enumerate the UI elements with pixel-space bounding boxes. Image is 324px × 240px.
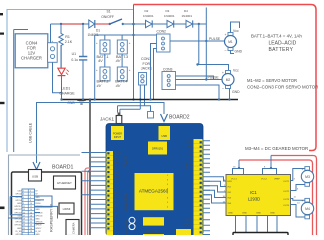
svg-text:GND: GND bbox=[35, 219, 40, 221]
wire series link BATT.1-BATT.2 bbox=[104, 54, 106, 67]
svg-text:USB: USB bbox=[162, 134, 168, 138]
diode D1 1N4001 bbox=[88, 20, 101, 37]
svg-text:18: 18 bbox=[30, 215, 32, 217]
right header strip bbox=[194, 139, 203, 235]
svg-text:8: 8 bbox=[30, 200, 31, 202]
svg-text:5V: 5V bbox=[114, 168, 117, 170]
svg-text:+: + bbox=[129, 41, 131, 45]
svg-text:HDMI: HDMI bbox=[63, 207, 71, 211]
wire M1 GND stub bbox=[231, 51, 235, 54]
svg-text:GND: GND bbox=[235, 50, 243, 54]
svg-text:GND: GND bbox=[35, 209, 40, 211]
svg-text:TX0 14: TX0 14 bbox=[185, 220, 193, 222]
junction bbox=[238, 167, 240, 169]
svg-text:GND: GND bbox=[232, 90, 240, 94]
svg-text:GND: GND bbox=[187, 146, 192, 148]
ground symbol bbox=[67, 100, 85, 104]
svg-text:BATT.4: BATT.4 bbox=[115, 79, 127, 83]
svg-text:17: 17 bbox=[23, 215, 25, 217]
svg-text:Vcc: Vcc bbox=[233, 29, 239, 33]
wire black stub from bus bbox=[89, 100, 91, 236]
svg-text:IOREF: IOREF bbox=[114, 154, 122, 156]
right side wire stubs bbox=[203, 141, 211, 235]
USB port box bbox=[29, 170, 42, 182]
svg-text:3.3V: 3.3V bbox=[17, 191, 22, 193]
svg-text:2: 2 bbox=[30, 191, 31, 193]
IC1 top pin bracket VCC2/VREF bbox=[263, 169, 277, 175]
svg-text:–: – bbox=[225, 48, 227, 52]
svg-text:VCC1: VCC1 bbox=[231, 179, 238, 181]
svg-text:GPIO8: GPIO8 bbox=[35, 225, 42, 227]
svg-text:–: – bbox=[222, 86, 224, 90]
svg-text:ON/OFF: ON/OFF bbox=[101, 15, 114, 19]
wire 12V rail blue segment bbox=[51, 23, 62, 25]
wire stubs to BATT.1/BATT.3 bbox=[105, 35, 122, 40]
black edge tick top-left bbox=[0, 13, 3, 15]
svg-text:+: + bbox=[225, 33, 227, 37]
svg-text:+: + bbox=[129, 68, 131, 72]
wire CON3 pulse line to M2 bbox=[176, 79, 224, 81]
svg-text:28: 28 bbox=[30, 231, 32, 233]
svg-text:GPIO2: GPIO2 bbox=[15, 194, 22, 196]
svg-text:U1: U1 bbox=[72, 52, 76, 56]
svg-text:PWM: PWM bbox=[185, 162, 189, 170]
svg-text:LEAD–ACID: LEAD–ACID bbox=[269, 41, 297, 47]
wire series link BATT.3-BATT.4 bbox=[121, 54, 123, 67]
svg-text:19: 19 bbox=[23, 219, 25, 221]
wire CON2 pins to ground bus bbox=[151, 44, 157, 100]
svg-text:0.1u: 0.1u bbox=[71, 58, 78, 62]
wire CON2 Vcc route to M2 bbox=[199, 24, 229, 71]
svg-text:M3: M3 bbox=[305, 175, 310, 179]
svg-text:ETHERNET: ETHERNET bbox=[57, 181, 72, 185]
connector BATT.2 bbox=[96, 67, 110, 88]
svg-text:GND: GND bbox=[35, 234, 40, 235]
svg-text:VCC2: VCC2 bbox=[261, 179, 268, 181]
svg-text:GND: GND bbox=[114, 177, 119, 179]
svg-text:M4: M4 bbox=[305, 207, 310, 211]
svg-text:FOR: FOR bbox=[143, 62, 151, 66]
svg-text:ICSP: ICSP bbox=[147, 213, 156, 217]
svg-text:27: 27 bbox=[23, 231, 25, 233]
junction bbox=[132, 34, 134, 36]
diode D3 1N4001 bbox=[164, 9, 175, 27]
svg-text:RASPBERRY PI: RASPBERRY PI bbox=[50, 204, 54, 232]
svg-text:ARDUINO: ARDUINO bbox=[125, 220, 129, 235]
connector plug for JACK1 bbox=[148, 112, 154, 119]
ATMEGA2560 chip bbox=[135, 173, 174, 210]
wire CON4 bottom loop to LED cathode bbox=[53, 62, 62, 92]
svg-text:RESET: RESET bbox=[146, 229, 160, 234]
svg-text:OUT3: OUT3 bbox=[283, 199, 290, 201]
svg-text:USB: USB bbox=[32, 175, 38, 179]
svg-text:23: 23 bbox=[23, 225, 25, 227]
svg-text:20: 20 bbox=[30, 219, 32, 221]
junction node at battery feed bbox=[132, 23, 135, 26]
dc motor M4 bbox=[301, 198, 313, 218]
connector CON4 2-pin header bbox=[48, 39, 58, 62]
svg-text:BATTERY: BATTERY bbox=[269, 47, 294, 53]
svg-text:14: 14 bbox=[30, 209, 32, 211]
right pin labels bbox=[184, 141, 193, 227]
wire servo power vertical bbox=[205, 8, 207, 80]
svg-text:GND: GND bbox=[35, 197, 40, 199]
svg-text:CON2: CON2 bbox=[157, 30, 167, 34]
svg-text:ID_SD: ID_SD bbox=[16, 231, 22, 233]
wires IC1 outputs to motors bbox=[291, 169, 305, 181]
svg-text:Vcc: Vcc bbox=[233, 69, 239, 73]
connector CON1 (for JACK1) bbox=[139, 57, 152, 85]
junction dots on bus bbox=[60, 98, 62, 100]
svg-text:BOARD1: BOARD1 bbox=[52, 165, 73, 171]
wire riser VCC1 to W1 bbox=[238, 160, 240, 169]
GPIO pin labels right bbox=[35, 191, 43, 236]
svg-text:D2: D2 bbox=[145, 9, 149, 13]
svg-text:GPIO22: GPIO22 bbox=[14, 212, 22, 214]
junction bbox=[198, 23, 200, 25]
wire D4 to servo rail bbox=[193, 23, 207, 25]
POWER INPUT block bbox=[111, 126, 124, 140]
junction bbox=[270, 167, 272, 169]
svg-text:+: + bbox=[302, 167, 304, 171]
wire D3-D4 bbox=[174, 23, 186, 25]
dc motor M3 bbox=[301, 167, 313, 187]
svg-text:GND: GND bbox=[114, 172, 119, 174]
wire 12V rail red segment bbox=[61, 23, 83, 25]
connector CON3 bbox=[162, 67, 176, 89]
svg-text:25: 25 bbox=[23, 228, 25, 230]
svg-text:INPUT: INPUT bbox=[114, 136, 122, 139]
svg-text:GND: GND bbox=[17, 203, 22, 205]
pin number labels IC1 left bbox=[223, 179, 226, 203]
ETHERNET port box bbox=[54, 176, 76, 189]
svg-text:GPIO24: GPIO24 bbox=[35, 215, 43, 217]
svg-text:RST: RST bbox=[114, 158, 119, 160]
svg-text:OUT1: OUT1 bbox=[283, 181, 290, 183]
svg-text:R1: R1 bbox=[65, 35, 70, 39]
svg-text:CHARGER: CHARGER bbox=[21, 56, 42, 61]
svg-text:JACK1: JACK1 bbox=[100, 116, 115, 121]
barrel jack symbol bbox=[116, 113, 122, 124]
svg-text:3.3V: 3.3V bbox=[17, 215, 22, 217]
svg-text:CON1: CON1 bbox=[141, 57, 151, 61]
svg-text:2.1K: 2.1K bbox=[65, 40, 73, 44]
left pin labels bbox=[114, 154, 122, 223]
svg-text:4V: 4V bbox=[98, 59, 103, 63]
svg-text:M1: M1 bbox=[228, 40, 233, 44]
red power wire W1 (VCC1 rail, wraps right and below crop) bbox=[239, 160, 313, 235]
svg-text:OUT2: OUT2 bbox=[283, 191, 290, 193]
svg-text:GPIO9: GPIO9 bbox=[15, 222, 22, 224]
svg-text:M3–M4 = DC GEARED MOTOR: M3–M4 = DC GEARED MOTOR bbox=[245, 146, 308, 151]
svg-text:1: 1 bbox=[23, 191, 24, 193]
USB cable wire bbox=[37, 103, 165, 164]
svg-text:4V: 4V bbox=[97, 84, 102, 88]
IC IC1 L293D bbox=[226, 175, 291, 216]
ground bus (black) bbox=[61, 99, 239, 101]
wire CON3 pin to ground bus bbox=[176, 76, 220, 100]
wires BOARD2 to IC1 inputs bbox=[203, 177, 227, 203]
black edge tick lower bbox=[0, 207, 5, 210]
svg-text:4: 4 bbox=[30, 194, 31, 196]
svg-text:CAMERA: CAMERA bbox=[72, 222, 76, 234]
svg-text:24: 24 bbox=[30, 225, 32, 227]
diode D2 1N4001 bbox=[143, 9, 154, 27]
outer section border (power supply section, blue) bbox=[7, 10, 134, 153]
svg-text:GPIO11: GPIO11 bbox=[14, 225, 22, 227]
svg-text:26: 26 bbox=[30, 228, 32, 230]
black edge tick middle bbox=[0, 102, 5, 104]
svg-text:GND: GND bbox=[256, 213, 261, 215]
connector CON2 bbox=[157, 30, 171, 53]
junction bbox=[82, 23, 84, 25]
svg-text:PULSE: PULSE bbox=[209, 37, 221, 41]
svg-text:GND: GND bbox=[17, 228, 22, 230]
battery left rail wire bbox=[94, 35, 96, 100]
svg-text:GPIO5: GPIO5 bbox=[15, 234, 22, 235]
USB block bbox=[159, 126, 171, 140]
svg-text:7: 7 bbox=[23, 200, 24, 202]
wire CON4 to 12V rail bbox=[50, 24, 52, 43]
wire D2-D3 bbox=[152, 23, 167, 25]
wire S1 to D2 (red) bbox=[124, 23, 145, 25]
junction bbox=[205, 78, 207, 80]
red power wire W1 left end (to BOARD2 pins, wraps below crop) bbox=[85, 168, 90, 235]
battery + rail wire bbox=[95, 34, 157, 36]
svg-text:DFR0191: DFR0191 bbox=[152, 147, 164, 151]
arduino infinity logo bbox=[129, 217, 135, 229]
left side wire stubs from BOARD1 to BOARD2 bbox=[82, 153, 107, 228]
resistor R1 bbox=[59, 24, 73, 68]
svg-text:PULSE: PULSE bbox=[208, 76, 220, 80]
svg-text:6: 6 bbox=[30, 197, 31, 199]
svg-text:ID_SC: ID_SC bbox=[35, 231, 41, 233]
svg-text:+: + bbox=[96, 41, 98, 45]
svg-text:USB CABLE: USB CABLE bbox=[29, 122, 33, 143]
svg-text:RX0 15: RX0 15 bbox=[184, 224, 192, 226]
svg-text:5: 5 bbox=[23, 197, 24, 199]
svg-text:GPIO4: GPIO4 bbox=[15, 200, 22, 202]
svg-text:BOARD2: BOARD2 bbox=[169, 114, 190, 120]
svg-text:1N4001: 1N4001 bbox=[143, 14, 154, 18]
svg-text:22: 22 bbox=[30, 222, 32, 224]
wire riser VCC2 to W2 bbox=[270, 156, 272, 169]
GPIO pin labels left bbox=[14, 191, 22, 236]
BOARD1 Raspberry Pi outline bbox=[12, 172, 82, 238]
wire M1 Vcc stub bbox=[231, 22, 240, 33]
svg-text:1N4001: 1N4001 bbox=[182, 14, 193, 18]
svg-text:BATT.2: BATT.2 bbox=[97, 79, 109, 83]
svg-text:CHARGE: CHARGE bbox=[59, 91, 75, 95]
wire CON1 down to plug bbox=[118, 85, 151, 113]
GPIO header table bbox=[22, 189, 35, 235]
svg-text:GPIO3: GPIO3 bbox=[15, 197, 22, 199]
svg-text:CON2–CON3 FOR SERVO MOTOR: CON2–CON3 FOR SERVO MOTOR bbox=[247, 85, 318, 90]
svg-text:9: 9 bbox=[23, 203, 24, 205]
wire battery feed vertical (box A left edge lead) bbox=[133, 5, 135, 100]
junction on left stub bbox=[88, 170, 90, 172]
svg-text:VREF: VREF bbox=[274, 179, 280, 181]
svg-text:D3: D3 bbox=[166, 9, 170, 13]
junction bbox=[60, 92, 62, 94]
red power wire W2 (VCC2 rail) bbox=[271, 156, 317, 236]
svg-text:3.3V: 3.3V bbox=[114, 163, 119, 165]
svg-text:GPIO17: GPIO17 bbox=[14, 206, 22, 208]
TX/RX label block bbox=[176, 229, 191, 235]
wire D1 to S1 (red) bbox=[96, 23, 110, 25]
svg-text:RXD0: RXD0 bbox=[35, 203, 41, 205]
svg-text:ATMEGA2560: ATMEGA2560 bbox=[139, 189, 169, 194]
svg-text:AREF: AREF bbox=[186, 141, 193, 144]
svg-text:BATT.1–BATT.4 = 4V, 1Ah: BATT.1–BATT.4 = 4V, 1Ah bbox=[251, 34, 302, 39]
svg-text:4V: 4V bbox=[116, 84, 121, 88]
junction bbox=[60, 23, 62, 25]
ATMEGA chip pin numbers right column bbox=[167, 175, 169, 209]
connector BATT.1 bbox=[96, 40, 110, 63]
svg-text:GPIO27: GPIO27 bbox=[14, 209, 22, 211]
svg-text:M2: M2 bbox=[226, 78, 231, 82]
HDMI port box bbox=[59, 203, 74, 214]
diode D4 1N4001 bbox=[182, 9, 193, 27]
red power wire W2 left end bbox=[88, 171, 91, 235]
svg-text:IC1: IC1 bbox=[250, 190, 257, 195]
svg-text:GND: GND bbox=[228, 213, 233, 215]
pin numbers IC1 right bbox=[294, 179, 301, 205]
junction bbox=[205, 40, 207, 42]
svg-text:4V: 4V bbox=[116, 59, 121, 63]
GPIO wires bbox=[8, 196, 58, 224]
svg-text:GND: GND bbox=[242, 213, 247, 215]
svg-text:16: 16 bbox=[30, 212, 32, 214]
svg-text:LED1: LED1 bbox=[61, 86, 70, 90]
left header strip bbox=[107, 151, 114, 235]
wire CON2 pulse line to M1 bbox=[170, 40, 225, 42]
servo motor M2 bbox=[222, 71, 234, 91]
svg-text:ANALOG IN: ANALOG IN bbox=[124, 193, 128, 211]
black edge tick upper bbox=[0, 33, 4, 35]
svg-text:+: + bbox=[96, 68, 98, 72]
svg-text:11: 11 bbox=[23, 206, 25, 208]
connector BATT.3 bbox=[116, 40, 131, 63]
svg-text:GND: GND bbox=[270, 213, 275, 215]
capacitor U1 0.1u bbox=[71, 24, 87, 100]
GPIO pin numbers bbox=[23, 191, 32, 233]
connector BATT.4 bbox=[115, 67, 130, 88]
servo motor M1 bbox=[225, 33, 237, 53]
BOARD1 outer section box bbox=[9, 155, 81, 235]
battery box bottom (cut off) bbox=[233, 233, 288, 239]
BOARD2 Arduino Mega board bbox=[106, 124, 203, 236]
red section box A (battery/servo section) bbox=[134, 5, 317, 151]
chip block 16U2 bbox=[148, 142, 167, 155]
svg-text:13: 13 bbox=[23, 209, 25, 211]
wire 12V line left vertical bbox=[14, 30, 28, 153]
svg-text:S1: S1 bbox=[107, 10, 111, 14]
svg-text:+: + bbox=[222, 71, 224, 75]
svg-text:1N4001: 1N4001 bbox=[164, 14, 175, 18]
arrowhead USB cable to BOARD2 USB bbox=[161, 114, 168, 122]
wires IC1 bottom bbox=[236, 216, 278, 233]
arrowhead USB cable to BOARD1 bbox=[33, 162, 40, 170]
svg-text:OUT4: OUT4 bbox=[283, 205, 290, 207]
svg-text:VIN: VIN bbox=[114, 182, 118, 184]
LED LED1 (red, charge indicator) bbox=[58, 45, 76, 100]
svg-text:POWER: POWER bbox=[124, 155, 128, 168]
svg-text:D4: D4 bbox=[184, 9, 188, 13]
svg-text:+: + bbox=[52, 39, 54, 43]
svg-text:GPIO10: GPIO10 bbox=[14, 219, 22, 221]
svg-text:21: 21 bbox=[23, 222, 25, 224]
svg-text:M1–M2 = SERVO MOTOR: M1–M2 = SERVO MOTOR bbox=[247, 78, 297, 83]
wire M2 to ground bus bbox=[229, 89, 231, 100]
svg-text:+: + bbox=[302, 199, 304, 203]
connector CON4 box bbox=[15, 34, 48, 68]
svg-text:15: 15 bbox=[23, 212, 25, 214]
CAMERA port box bbox=[66, 220, 79, 236]
svg-text:3: 3 bbox=[23, 194, 24, 196]
switch S1 ON/OFF bbox=[101, 10, 124, 26]
svg-text:L293D: L293D bbox=[248, 197, 260, 202]
svg-text:CON3: CON3 bbox=[163, 67, 173, 71]
svg-text:D1: D1 bbox=[96, 28, 100, 32]
svg-text:GPIO7: GPIO7 bbox=[35, 228, 42, 230]
svg-text:10: 10 bbox=[30, 203, 32, 205]
IC1 top pin bracket VCC1 bbox=[233, 169, 244, 175]
svg-text:12: 12 bbox=[30, 206, 32, 208]
